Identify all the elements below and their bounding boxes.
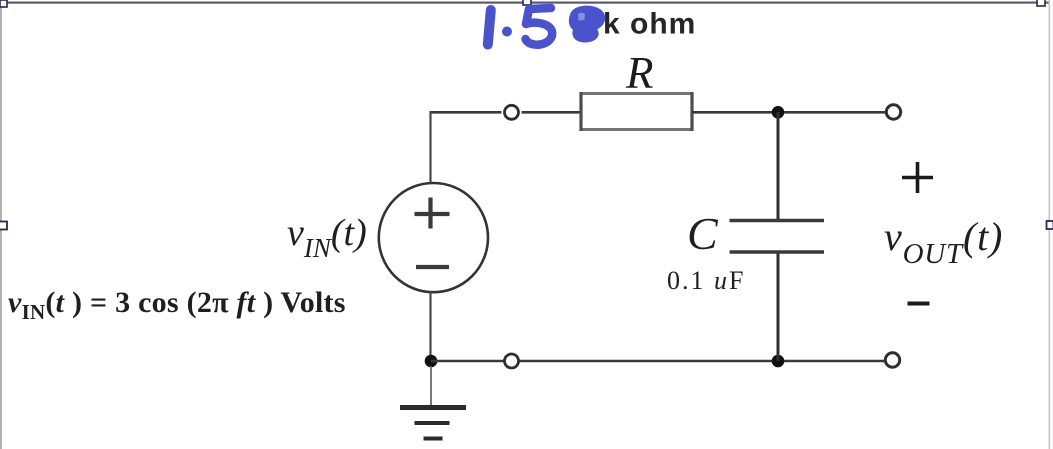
wire: capacitor top vertical bbox=[777, 112, 780, 219]
wire: bottom horizontal bbox=[431, 360, 886, 363]
svg-text:k ohm: k ohm bbox=[603, 8, 696, 41]
svg-text:C: C bbox=[687, 208, 719, 259]
voltage source plus sign bbox=[415, 198, 450, 229]
wire: left vertical (top corner down to source) bbox=[429, 111, 431, 184]
output terminal top (open circle) bbox=[886, 105, 900, 119]
node junction bottom-right (dot) bbox=[772, 355, 785, 368]
capacitor C1 bottom plate bbox=[730, 250, 825, 253]
svg-text:R: R bbox=[625, 48, 654, 98]
output terminal bottom (open circle) bbox=[885, 353, 899, 367]
ground symbol bar 2 bbox=[415, 421, 450, 425]
selection handle right-middle bbox=[1047, 221, 1053, 229]
terminal open circle on top-left wire bbox=[505, 105, 519, 119]
capacitor C1 top plate bbox=[730, 219, 825, 222]
wire: source bottom vertical bbox=[429, 292, 431, 361]
ground symbol bar 1 bbox=[400, 405, 466, 410]
selection handle top-right bbox=[1037, 0, 1045, 6]
wire: top-left horizontal (source to resistor) bbox=[431, 111, 582, 114]
svg-text:vIN(t ) = 3 cos (2π ft ) Volts: vIN(t ) = 3 cos (2π ft ) Volts bbox=[8, 286, 346, 324]
selection handle left-middle bbox=[0, 222, 7, 230]
terminal open circle on bottom wire bbox=[505, 354, 519, 368]
output plus sign bbox=[902, 162, 933, 193]
selection frame top border bbox=[0, 2, 1050, 4]
node junction bottom-left (dot) bbox=[425, 355, 438, 368]
handwritten blue annotation "1.5" : digit 1 bbox=[488, 10, 491, 45]
node junction top (dot) bbox=[772, 106, 785, 119]
voltage source V1 bbox=[379, 183, 488, 292]
selection frame left border bbox=[0, 0, 2, 449]
output minus sign bbox=[908, 302, 930, 306]
svg-text:0.1 uF: 0.1 uF bbox=[667, 266, 745, 295]
ground symbol bar 3 bbox=[424, 437, 443, 441]
handwritten scribble blob over old value bbox=[569, 6, 605, 43]
wire: top-right horizontal (resistor to output terminal) bbox=[692, 111, 887, 114]
selection frame right border bbox=[1049, 0, 1051, 449]
selection handle top-center bbox=[523, 0, 531, 5]
handwritten decimal point bbox=[502, 27, 512, 37]
wire: ground stem bbox=[430, 366, 432, 405]
voltage source minus sign bbox=[416, 265, 449, 269]
resistor R bbox=[581, 94, 692, 130]
selection handle top-left bbox=[0, 0, 7, 7]
handwritten digit 5 bbox=[526, 8, 553, 45]
wire: capacitor bottom vertical bbox=[777, 254, 780, 362]
